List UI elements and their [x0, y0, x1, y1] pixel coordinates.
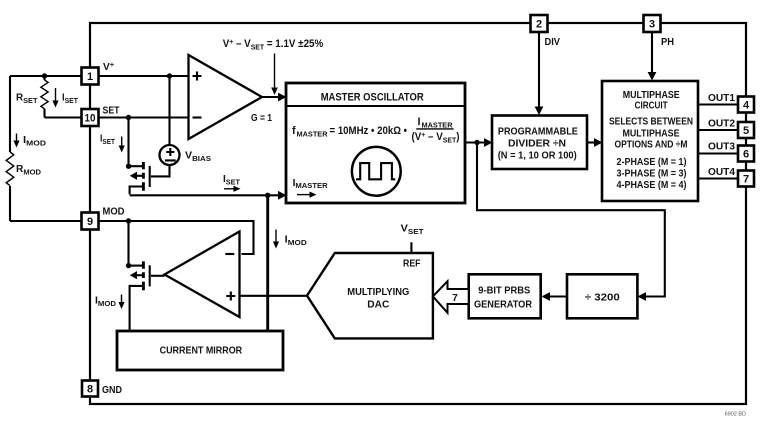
svg-text:1: 1 [87, 71, 93, 83]
svg-text:MASTER: MASTER [422, 120, 453, 129]
svg-text:4: 4 [743, 99, 750, 111]
svg-text:6902 BD: 6902 BD [725, 412, 746, 418]
svg-text:REF: REF [403, 259, 421, 270]
svg-text:OUT4: OUT4 [708, 167, 735, 178]
svg-text:PROGRAMMABLE: PROGRAMMABLE [498, 126, 578, 137]
svg-text:MOD: MOD [103, 207, 125, 218]
svg-text:7: 7 [452, 293, 458, 304]
svg-text:= 10MHz • 20kΩ •: = 10MHz • 20kΩ • [330, 125, 408, 137]
svg-text:3: 3 [649, 18, 655, 30]
svg-text:SET: SET [103, 106, 121, 117]
svg-text:8: 8 [87, 383, 93, 395]
svg-text:MULTIPHASE: MULTIPHASE [623, 128, 680, 139]
svg-text:9: 9 [87, 216, 93, 228]
svg-text:CURRENT MIRROR: CURRENT MIRROR [160, 346, 243, 357]
svg-text:OUT1: OUT1 [708, 93, 735, 104]
svg-text:GENERATOR: GENERATOR [474, 299, 532, 310]
svg-text:(N = 1, 10 OR 100): (N = 1, 10 OR 100) [498, 151, 577, 162]
svg-text:5: 5 [743, 125, 749, 137]
svg-text:3-PHASE (M = 3): 3-PHASE (M = 3) [617, 169, 687, 180]
svg-text:7: 7 [743, 173, 749, 185]
svg-text:MASTER OSCILLATOR: MASTER OSCILLATOR [321, 91, 424, 103]
svg-text:DIV: DIV [545, 37, 561, 48]
svg-text:SELECTS BETWEEN: SELECTS BETWEEN [609, 117, 693, 128]
svg-text:MULTIPLYING: MULTIPLYING [347, 287, 409, 298]
svg-text:2: 2 [536, 18, 542, 30]
svg-text:10: 10 [85, 112, 96, 124]
svg-text:OPTIONS AND ÷M: OPTIONS AND ÷M [615, 140, 688, 151]
svg-text:6: 6 [743, 148, 749, 160]
svg-text:OUT2: OUT2 [708, 119, 735, 130]
svg-text:MASTER: MASTER [297, 130, 328, 139]
svg-text:2-PHASE (M = 1): 2-PHASE (M = 1) [617, 157, 687, 168]
svg-text:DIVIDER ÷N: DIVIDER ÷N [508, 138, 566, 149]
svg-text:CIRCUIT: CIRCUIT [635, 100, 668, 111]
svg-text:OUT3: OUT3 [708, 141, 735, 152]
svg-text:MULTIPHASE: MULTIPHASE [623, 90, 680, 101]
svg-text:V+ – VSET = 1.1V ±25%: V+ – VSET = 1.1V ±25% [223, 37, 324, 52]
svg-text:PH: PH [661, 37, 674, 48]
svg-text:4-PHASE (M = 4): 4-PHASE (M = 4) [617, 180, 687, 191]
svg-text:I: I [418, 116, 421, 128]
svg-text:÷ 3200: ÷ 3200 [585, 292, 620, 303]
svg-text:f: f [292, 125, 296, 137]
svg-text:G = 1: G = 1 [251, 113, 272, 124]
svg-text:DAC: DAC [367, 300, 390, 311]
svg-text:GND: GND [102, 385, 122, 396]
svg-text:9-BIT PRBS: 9-BIT PRBS [478, 285, 530, 296]
